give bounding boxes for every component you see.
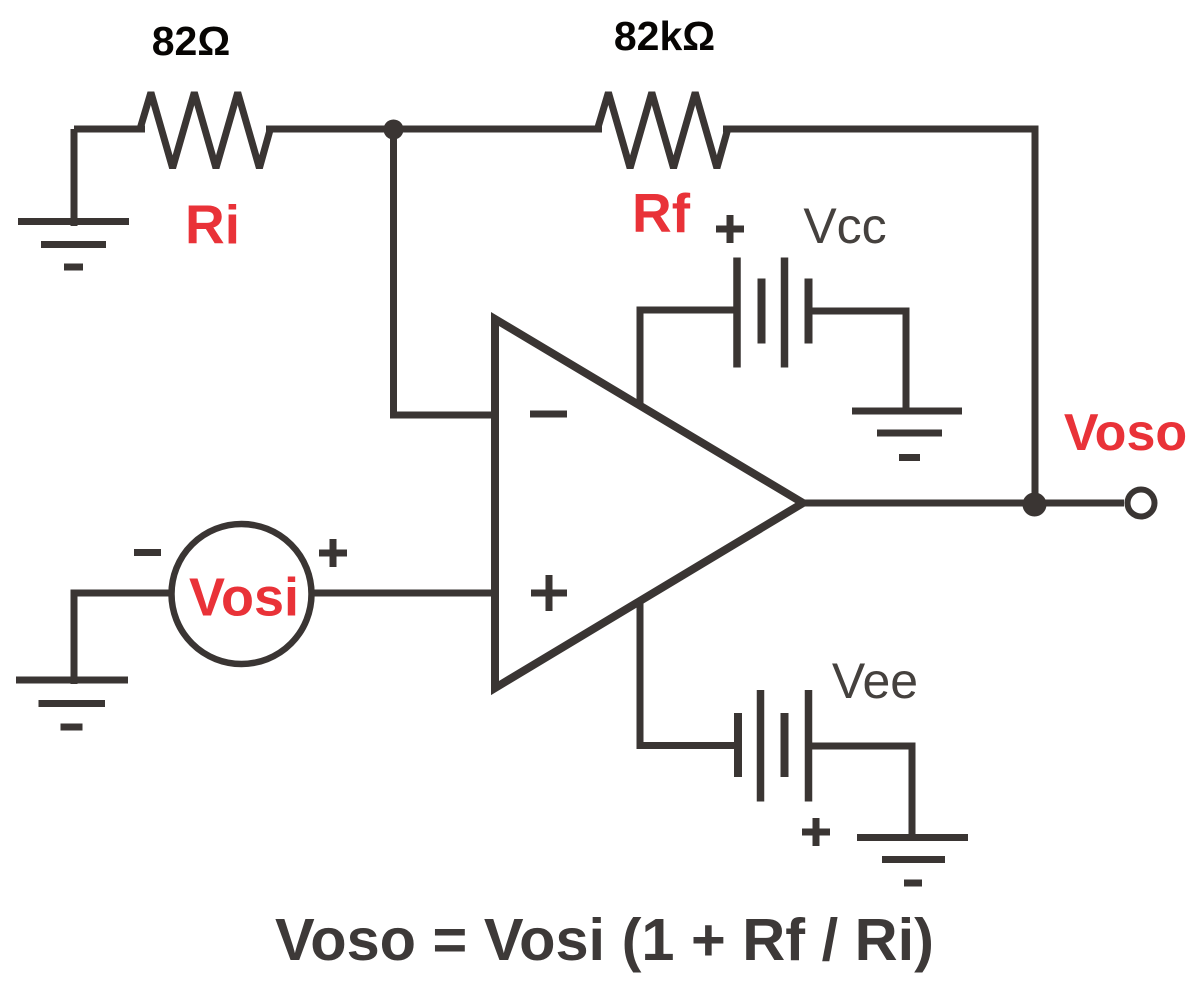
resistor Ri bbox=[140, 93, 270, 169]
wire (Ri to node) bbox=[266, 126, 602, 133]
wire (Vosi to ground) bbox=[74, 593, 173, 684]
wire (Vee to ground) bbox=[812, 746, 912, 839]
ground (Ri input side) bbox=[18, 129, 129, 267]
svg-text:Vcc: Vcc bbox=[803, 198, 886, 254]
op-amp U1 bbox=[495, 319, 803, 688]
wire (node to inverting input) bbox=[394, 129, 496, 415]
wire (Vosi to non-inverting input) bbox=[310, 590, 495, 597]
wire (op-amp V+ pin to Vcc) bbox=[640, 310, 734, 406]
battery Vcc bbox=[737, 258, 809, 368]
ground (Vee) bbox=[857, 838, 968, 884]
ground (Vcc) bbox=[852, 411, 962, 458]
source Vosi bbox=[172, 524, 312, 664]
wire (op-amp V- pin to Vee) bbox=[640, 601, 734, 746]
wire (ground to Ri) bbox=[74, 126, 145, 133]
polarity + (Vee) bbox=[802, 818, 830, 846]
svg-text:82kΩ: 82kΩ bbox=[614, 13, 715, 59]
svg-text:Vosi: Vosi bbox=[189, 568, 299, 628]
wire (feedback: Rf to output node) bbox=[723, 129, 1035, 503]
node Voso (output junction) bbox=[1023, 493, 1047, 517]
polarity + (Vcc) bbox=[716, 215, 744, 243]
op-amp inverting input marker - bbox=[530, 411, 567, 418]
svg-text:Voso = Vosi (1 + Rf / Ri): Voso = Vosi (1 + Rf / Ri) bbox=[275, 906, 934, 973]
node junction (inverting net) bbox=[384, 120, 404, 140]
resistor Rf bbox=[598, 93, 728, 169]
polarity - (Vosi) bbox=[134, 549, 161, 556]
svg-text:Voso: Voso bbox=[1064, 404, 1187, 462]
ground (Vosi) bbox=[16, 680, 128, 727]
svg-text:82Ω: 82Ω bbox=[152, 18, 230, 64]
svg-text:Vee: Vee bbox=[832, 653, 918, 709]
svg-text:Rf: Rf bbox=[632, 182, 691, 244]
op-amp non-inverting input marker + bbox=[531, 575, 567, 611]
terminal Voso (open circle) bbox=[1128, 490, 1155, 517]
svg-text:Ri: Ri bbox=[185, 194, 240, 256]
battery Vee bbox=[738, 690, 809, 802]
polarity + (Vosi) bbox=[319, 539, 347, 567]
wire (op-amp output to terminal) bbox=[803, 500, 1124, 507]
wire (Vcc to ground) bbox=[812, 311, 906, 413]
